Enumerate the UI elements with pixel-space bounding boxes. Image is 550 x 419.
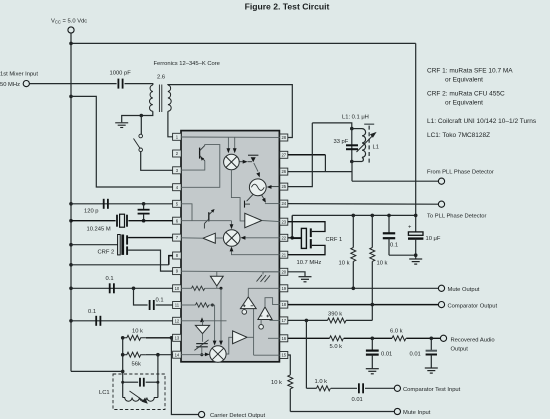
svg-text:L1: Coilcraft UNI 10/142 10–1/: L1: Coilcraft UNI 10/142 10–1/2 Turns xyxy=(427,118,537,125)
svg-text:18: 18 xyxy=(281,302,286,307)
variable inductor (inside LC1) xyxy=(123,398,158,402)
svg-text:120 p: 120 p xyxy=(84,209,99,215)
wire pin25 arrow into oscillator xyxy=(271,186,280,188)
svg-text:0.1: 0.1 xyxy=(88,309,96,315)
svg-text:6.0 k: 6.0 k xyxy=(390,329,403,335)
svg-text:33 pF: 33 pF xyxy=(334,139,349,145)
wire pin 22 stub xyxy=(288,237,302,239)
node vcc-rail junction xyxy=(69,42,73,46)
pin 26 xyxy=(280,168,288,175)
svg-text:CRF 2: CRF 2 xyxy=(98,249,115,255)
crystal Y1 10.245 M xyxy=(116,215,118,227)
svg-text:Comparator Output: Comparator Output xyxy=(448,303,498,309)
varactor internal xyxy=(202,334,204,342)
node rail 120p junction xyxy=(69,202,73,206)
svg-text:22: 22 xyxy=(281,235,286,240)
resistor 10k (mute pull-up) xyxy=(352,215,354,247)
svg-text:10: 10 xyxy=(175,286,180,291)
LC1 dashed box xyxy=(113,374,165,410)
mixer U1d (quadrature detector) xyxy=(210,346,226,362)
wire mixer3 to audio amp xyxy=(226,337,233,354)
wire pin22 arrow into mixer2 xyxy=(244,237,280,239)
svg-text:From PLL Phase Detector: From PLL Phase Detector xyxy=(427,170,494,176)
transformer T1 primary winding xyxy=(150,85,153,111)
wire pin 15 to mute input resistor xyxy=(288,355,291,375)
wire pin 5 line xyxy=(71,203,173,205)
node common ground junction xyxy=(414,253,418,257)
svg-text:5.0 k: 5.0 k xyxy=(330,344,343,350)
capacitor 10 uF (electrolytic) xyxy=(408,232,423,235)
ground (VCC bypass) xyxy=(409,259,422,264)
svg-text:Mute Output: Mute Output xyxy=(448,287,480,293)
svg-text:CRF 2: muRata CFU 455C: CRF 2: muRata CFU 455C xyxy=(427,91,505,98)
wire pin 20 to ground xyxy=(288,272,305,276)
svg-text:16: 16 xyxy=(281,336,286,341)
svg-text:10.245 M: 10.245 M xyxy=(87,227,111,233)
wire pin 23 to CRF1 top xyxy=(288,222,325,232)
wire oscillator to pin 24 arrow xyxy=(262,195,265,199)
svg-text:11: 11 xyxy=(175,303,180,308)
svg-text:Carrier Detect Output: Carrier Detect Output xyxy=(210,413,265,419)
mixer U1c (2nd mixer) xyxy=(223,230,240,247)
pin 21 xyxy=(280,251,288,258)
wire cap to pin 11 xyxy=(156,304,173,306)
internal chassis ground hatching xyxy=(257,275,271,282)
resistor internal (pin11) xyxy=(181,304,196,306)
svg-text:14: 14 xyxy=(175,352,180,357)
mixer U1a (1st mixer) xyxy=(224,154,240,170)
svg-text:L1: L1 xyxy=(373,145,379,151)
node rail 0.1 junction (pin10) xyxy=(69,287,73,291)
wire comparator test branch xyxy=(305,320,307,388)
wire CRF1 left plate to pin22 node xyxy=(292,237,301,239)
resistor internal (pin10) xyxy=(181,287,192,289)
pin 8 xyxy=(173,252,182,259)
amplifier A2 (2nd IF, points left) xyxy=(203,233,215,243)
svg-text:0.1: 0.1 xyxy=(390,243,398,249)
svg-text:25: 25 xyxy=(281,184,286,189)
node LC1 cap junctions xyxy=(121,381,124,384)
carrier detect output terminal xyxy=(199,411,205,417)
Recovered Audio Output terminal xyxy=(440,335,446,341)
node pin17 junction xyxy=(305,319,309,323)
wire mixer1 output arrow xyxy=(239,161,243,163)
1st mixer input terminal xyxy=(23,81,29,87)
pin 11 xyxy=(173,302,182,309)
svg-text:LC1: LC1 xyxy=(99,390,110,396)
svg-text:19: 19 xyxy=(281,286,286,291)
wire pin 21 to CRF1 bottom xyxy=(288,245,325,254)
pin 1 xyxy=(173,133,182,140)
Mute Input terminal xyxy=(394,408,400,414)
node rail CRF2 junction xyxy=(69,243,73,247)
wire pin14 internal with arrow into mixer3 xyxy=(181,354,205,356)
amplifier A5 (audio) xyxy=(233,331,247,344)
pin 14 xyxy=(173,351,182,358)
wire rail to CRF2 xyxy=(71,244,118,246)
ceramic filter CRF 1 xyxy=(301,228,306,248)
wire C1 top to pin19 line xyxy=(247,288,249,297)
wire CRF2 top to pin 7 xyxy=(128,237,173,239)
wire pin 12 line xyxy=(71,320,173,322)
svg-text:0.01: 0.01 xyxy=(352,397,363,403)
wire cap to transformer xyxy=(125,84,153,85)
ground (de-emphasis) xyxy=(366,369,379,374)
wire pin9 to limiter line xyxy=(181,270,280,273)
svg-text:0.01: 0.01 xyxy=(381,351,392,357)
capacitor 33 pF xyxy=(346,144,358,146)
L1 adjust arrow xyxy=(357,135,374,152)
wire node to mixer3 arrow xyxy=(220,288,222,341)
From PLL Phase Detector terminal xyxy=(438,178,444,184)
wire VCC bus xyxy=(292,214,416,216)
amplifier A4 (points down) xyxy=(202,321,204,326)
pin 20 xyxy=(280,268,288,275)
pin 24 xyxy=(280,200,288,207)
wire pin1 to pin28 internal xyxy=(181,136,280,138)
node cap to crystal bottom xyxy=(142,219,146,223)
wire switch to pin 3 xyxy=(141,152,173,171)
svg-text:23: 23 xyxy=(281,219,286,224)
wire Q1 emitter to pin3 line xyxy=(181,161,205,170)
node mute pull-up junction xyxy=(352,287,356,291)
svg-text:0.01: 0.01 xyxy=(410,351,421,357)
current source arrow on pin12 line xyxy=(181,320,227,322)
node 10k-56k left junctions xyxy=(121,336,125,340)
switch S1 xyxy=(139,134,143,138)
svg-text:Ferronics 12–345–K Core: Ferronics 12–345–K Core xyxy=(154,61,220,67)
wire pin16 internal stub xyxy=(268,337,280,339)
pin 22 xyxy=(280,234,288,241)
wire tank top xyxy=(312,123,352,129)
capacitor 0.01 (comparator test) xyxy=(358,383,360,393)
node cap to crystal top xyxy=(142,202,146,206)
wire pin 25 line to tank left vertical xyxy=(288,123,313,187)
capacitor 0.1 (pin12) xyxy=(95,316,97,326)
wire pin 18 comparator output line xyxy=(288,304,439,306)
svg-text:or Equivalent: or Equivalent xyxy=(445,77,483,84)
svg-text:L1: 0.1 μH: L1: 0.1 μH xyxy=(342,115,369,121)
svg-text:1st Mixer Input: 1st Mixer Input xyxy=(0,72,38,78)
node tank bottom junction xyxy=(350,160,354,164)
IC body xyxy=(181,131,279,362)
wire pin 27 line xyxy=(288,154,326,156)
pin 3 xyxy=(173,167,182,174)
svg-text:20: 20 xyxy=(281,269,286,274)
svg-text:28: 28 xyxy=(281,135,286,140)
node output cap junction xyxy=(430,337,434,341)
svg-text:Output: Output xyxy=(451,347,469,353)
wire rail line to pin 8 xyxy=(71,264,169,266)
wire secondary bottom to pin 1 xyxy=(168,111,173,137)
wire A1 output to pin 23 xyxy=(262,221,280,222)
pin 5 xyxy=(173,200,182,207)
wire branch to pin 4 xyxy=(71,96,173,187)
svg-text:CRF 1: CRF 1 xyxy=(326,237,343,243)
wire pin 24 to To PLL terminal xyxy=(288,203,439,206)
svg-text:2.6: 2.6 xyxy=(157,75,165,81)
wire pin 6 line xyxy=(71,220,116,222)
svg-text:10 k: 10 k xyxy=(339,260,350,266)
comparator C1 xyxy=(240,297,256,309)
pin 12 xyxy=(173,317,182,324)
transformer T1 core xyxy=(158,85,160,113)
wire A5 to pin15 vertical xyxy=(247,336,254,338)
wire carrier detect output xyxy=(171,338,198,415)
pin 4 xyxy=(173,184,182,191)
wire pin6 internal line to mixer2 xyxy=(181,220,232,222)
wire input line xyxy=(30,83,117,85)
node internal quad junction xyxy=(220,287,223,290)
wire pin 22 VCC bus branch xyxy=(291,215,293,237)
internal bias symbol (bar and triangle) xyxy=(248,154,258,156)
wire to switch xyxy=(140,116,142,135)
ground (transformer) xyxy=(115,123,128,128)
comparator C2 xyxy=(258,307,272,320)
limiter amp A3 (points down) xyxy=(216,271,218,276)
wire LC1 right vertical xyxy=(157,355,159,398)
wire pin 26 line to tank bottom xyxy=(288,171,352,173)
wire pin5 internal stub xyxy=(181,204,192,221)
capacitor 1000 pF xyxy=(117,79,119,89)
pin 16 xyxy=(280,335,288,342)
svg-text:50 MHz: 50 MHz xyxy=(0,82,20,88)
node comparator pull-up junction xyxy=(371,303,375,307)
node carrier detect junction xyxy=(170,336,174,340)
pin 23 xyxy=(280,218,288,225)
wire 56k to pin 14 xyxy=(146,354,173,356)
To PLL Phase Detector terminal xyxy=(438,201,444,207)
transformer T1 secondary winding xyxy=(168,85,171,111)
wire 10k to pin 13 xyxy=(146,337,173,339)
node pin22 junction xyxy=(290,236,294,240)
Comparator Output terminal xyxy=(438,302,444,308)
svg-text:26: 26 xyxy=(281,169,286,174)
VCC terminal xyxy=(68,27,74,33)
capacitor 0.01 (de-emphasis) xyxy=(371,338,373,350)
Comparator Test Input terminal xyxy=(394,385,400,391)
svg-text:12: 12 xyxy=(175,318,180,323)
svg-text:56k: 56k xyxy=(132,362,141,368)
amplifier A1 (1st IF) xyxy=(245,213,262,227)
wire pin 10 line xyxy=(71,287,173,289)
wire pin20 internal ground xyxy=(263,272,280,275)
svg-text:24: 24 xyxy=(281,201,286,206)
wire pin 17 line xyxy=(288,319,328,321)
capacitor 0.01 (output) xyxy=(430,338,432,350)
node rail ground-line junction xyxy=(69,263,73,267)
pin 19 xyxy=(280,285,288,292)
svg-text:10 k: 10 k xyxy=(377,260,388,266)
svg-text:10 k: 10 k xyxy=(271,380,282,386)
ground (output cap) xyxy=(425,368,438,373)
pin 15 xyxy=(280,352,288,359)
node switch junction xyxy=(140,114,144,118)
svg-text:VCC = 5.0 Vdc: VCC = 5.0 Vdc xyxy=(51,19,87,25)
oscillator bottom tap and varactor bar xyxy=(247,195,253,202)
wire Q1 collector loop to pin4 line xyxy=(181,145,220,188)
svg-text:or Equivalent: or Equivalent xyxy=(445,100,483,107)
svg-text:Recovered Audio: Recovered Audio xyxy=(451,338,495,344)
wire left branch verticals xyxy=(122,338,124,398)
node 0.01 junction xyxy=(371,337,375,341)
node vcc pin4 branch junction xyxy=(69,95,73,99)
wire bias to oscillator xyxy=(254,163,258,172)
wire VCC top rail xyxy=(71,42,416,44)
wire tank vertical xyxy=(351,129,353,162)
resistor 10k (comparator pull-up) xyxy=(371,215,373,247)
wire branch to 0.1 (pin11) xyxy=(134,288,148,305)
svg-text:390 k: 390 k xyxy=(328,312,342,318)
Mute Output terminal xyxy=(438,285,444,291)
node 56k right / LC1 top xyxy=(156,353,160,357)
pin 17 xyxy=(280,317,288,324)
pin 10 xyxy=(173,285,182,292)
capacitor (inside LC1) xyxy=(123,381,139,383)
wire primary bottom to ground xyxy=(122,111,153,122)
oscillator U1b xyxy=(249,179,266,196)
svg-text:Mute Input: Mute Input xyxy=(403,410,431,416)
pin 18 xyxy=(280,301,288,308)
node tank top junction xyxy=(350,127,354,131)
svg-text:1000 pF: 1000 pF xyxy=(110,71,132,77)
wire pin21 arrow into mixer2 bottom xyxy=(232,250,280,255)
capacitor 120 p xyxy=(103,199,105,209)
pin 28 xyxy=(280,134,288,141)
pin 6 xyxy=(173,217,182,224)
wire pin 19 mute output line xyxy=(288,287,439,289)
svg-text:17: 17 xyxy=(281,318,286,323)
svg-text:13: 13 xyxy=(175,335,180,340)
svg-text:27: 27 xyxy=(281,152,286,157)
node VCC bus junctions xyxy=(352,214,356,218)
node varactor to pin14 line xyxy=(200,353,203,356)
svg-text:1.0 k: 1.0 k xyxy=(315,379,328,385)
svg-text:Comparator Test Input: Comparator Test Input xyxy=(403,387,461,393)
transistor Q1 xyxy=(199,148,201,159)
svg-text:0.1: 0.1 xyxy=(156,298,164,304)
wire CRF2 bottom to pin 9 xyxy=(128,250,173,271)
wire secondary top to pin 28 xyxy=(168,85,292,138)
wire mixer1 to IF amp xyxy=(231,170,244,221)
pin 2 xyxy=(173,150,182,157)
wire C2 to pin 17 xyxy=(270,319,280,321)
wire drops into mixer1 xyxy=(227,137,229,149)
ground (pin 20) xyxy=(299,277,312,282)
svg-text:21: 21 xyxy=(281,252,286,257)
transistor Q2 (crystal osc) xyxy=(208,212,210,221)
ceramic filter CRF 2 xyxy=(118,235,121,255)
wire VCC vertical rail xyxy=(70,33,72,371)
svg-text:CRF 1: muRata SFE 10.7 MA: CRF 1: muRata SFE 10.7 MA xyxy=(427,68,513,75)
svg-text:To PLL Phase Detector: To PLL Phase Detector xyxy=(427,214,486,220)
svg-text:0.1: 0.1 xyxy=(106,276,114,282)
svg-text:10 μF: 10 μF xyxy=(426,236,441,242)
svg-text:15: 15 xyxy=(281,353,286,358)
capacitor 0.1 (VCC bypass) xyxy=(388,215,390,232)
pin 25 xyxy=(280,183,288,190)
wire node to mixer3 arrow 2 xyxy=(214,305,216,341)
capacitor (across crystal) xyxy=(143,204,145,210)
wire tank to From PLL line xyxy=(351,162,353,182)
L1 core dashed line xyxy=(368,126,370,163)
node rail crystal junction xyxy=(69,219,73,223)
pin 7 xyxy=(173,234,182,241)
svg-text:10 k: 10 k xyxy=(132,328,143,334)
wire C2 top loop to pin 18 xyxy=(265,298,280,307)
wire mute input line xyxy=(290,411,394,413)
capacitor 0.1 (pin10) xyxy=(109,283,111,293)
svg-text:10.7 MHz: 10.7 MHz xyxy=(297,260,322,266)
inductor L1 (variable) xyxy=(352,128,362,130)
node rail 0.1 junction (pin12) xyxy=(69,319,73,323)
svg-text:LC1: Toko 7MC8128Z: LC1: Toko 7MC8128Z xyxy=(427,132,490,139)
pin 13 xyxy=(173,334,182,341)
node pin10 branch xyxy=(132,287,136,291)
svg-text:Figure 2. Test Circuit: Figure 2. Test Circuit xyxy=(245,1,330,11)
wire rail bottom corner to 10k/56k xyxy=(71,370,123,372)
wire pin16 line xyxy=(288,337,330,339)
wire VCC right vertical xyxy=(415,43,417,232)
capacitor 0.1 (pin11) xyxy=(149,300,151,310)
pin 9 xyxy=(173,268,182,275)
pin 27 xyxy=(280,151,288,158)
